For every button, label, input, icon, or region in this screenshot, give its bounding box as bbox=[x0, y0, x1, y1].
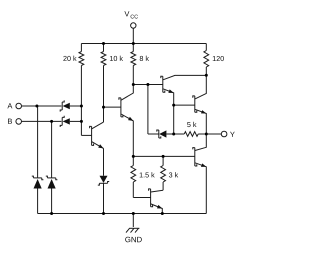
wire down to output diode bbox=[147, 85, 149, 135]
label 120 bbox=[213, 56, 224, 61]
arrow Q6 emitter bbox=[157, 205, 162, 209]
junction base line to D6 branch bbox=[146, 83, 149, 86]
node VCC terminal bbox=[131, 23, 136, 44]
junction Q2 emitter / 1.5k bbox=[132, 155, 135, 158]
resistor R2 10k bbox=[101, 44, 106, 123]
label B bbox=[8, 119, 12, 124]
transistor Q4 bbox=[174, 75, 207, 134]
resistor R4 120 bbox=[204, 44, 209, 76]
wire base line to Q3 bbox=[133, 84, 163, 86]
diode D4 clamp B bbox=[46, 121, 58, 179]
junction D6 / 5k bbox=[172, 133, 175, 136]
resistor R6 1.5k bbox=[131, 156, 136, 197]
junction 120 bottom / Q3-Q4 collectors bbox=[205, 74, 208, 77]
transistor Q6 bbox=[133, 189, 163, 214]
resistor R1 20k bbox=[79, 44, 84, 136]
label 20 k bbox=[63, 56, 76, 61]
arrow Q2 emitter bbox=[128, 117, 133, 121]
diode D3 clamp A bbox=[32, 106, 44, 180]
node B terminal bbox=[16, 119, 62, 125]
node A terminal bbox=[16, 103, 62, 109]
diode D5 to ground bbox=[103, 148, 105, 175]
label 10 k bbox=[110, 56, 123, 61]
diode D2 input B bbox=[63, 118, 70, 124]
junction ground rail D5 bbox=[102, 212, 105, 215]
label 3 k bbox=[169, 172, 178, 177]
junction 8k bottom / Q2 collector / Q3 base bbox=[132, 83, 135, 86]
arrow Q3 emitter bbox=[168, 89, 173, 93]
label 1.5 k bbox=[140, 172, 155, 177]
label A bbox=[7, 103, 12, 108]
junction input B clamp bbox=[50, 120, 53, 123]
ground symbol bbox=[126, 214, 139, 233]
label 5 k bbox=[187, 122, 196, 127]
node Y terminal bbox=[206, 131, 227, 137]
wire ground rail bbox=[38, 213, 207, 215]
wire VCC top rail bbox=[81, 43, 206, 45]
junction ground rail GND stem bbox=[132, 212, 135, 215]
label Y bbox=[230, 132, 235, 137]
arrow Q1 emitter bbox=[98, 144, 103, 148]
transistor Q2 bbox=[104, 85, 134, 157]
junction 10k top rail bbox=[102, 42, 105, 45]
transistor Q1 bbox=[81, 122, 103, 148]
junction VCC rail 8k bbox=[132, 42, 135, 45]
junction D2 anode 20k bbox=[80, 120, 83, 123]
diode D6 output bbox=[159, 130, 166, 137]
resistor R5 5k bbox=[174, 132, 207, 137]
transistor Q3 bbox=[161, 75, 207, 134]
label GND bbox=[125, 237, 142, 243]
label CC bbox=[131, 15, 138, 19]
diode D1 input A bbox=[63, 103, 70, 109]
arrow Q5 emitter bbox=[201, 163, 206, 167]
junction input A clamp bbox=[35, 105, 38, 108]
junction ground rail Q6 emitter bbox=[161, 212, 164, 215]
arrow Q4 emitter bbox=[201, 110, 206, 113]
label 8 k bbox=[140, 56, 149, 61]
junction 10k bottom / Q2 base / Q1 collector bbox=[102, 106, 105, 109]
junction Q3 emitter / Q4 base bbox=[172, 104, 175, 107]
resistor R7 3k bbox=[161, 156, 166, 190]
wire splitter rail bbox=[133, 155, 195, 157]
junction 3k top / Q5 base line bbox=[162, 155, 165, 158]
transistor Q5 bbox=[193, 134, 207, 214]
label V bbox=[124, 11, 129, 16]
junction D1 anode 20k bbox=[80, 105, 83, 108]
junction node Y bbox=[205, 133, 208, 136]
junction ground rail D4 bbox=[50, 212, 53, 215]
resistor R3 8k bbox=[131, 44, 136, 85]
